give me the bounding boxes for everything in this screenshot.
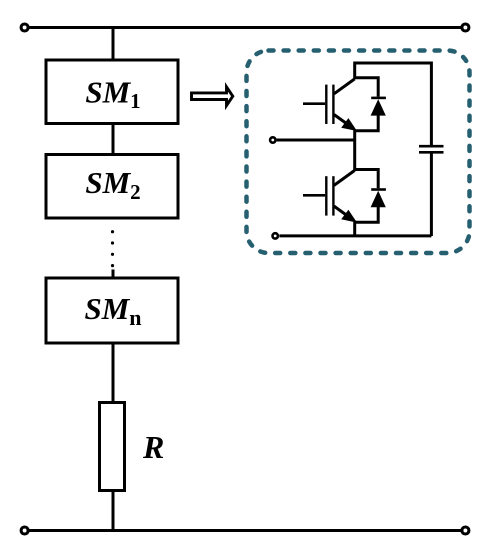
svg-text:R: R [142,429,164,465]
